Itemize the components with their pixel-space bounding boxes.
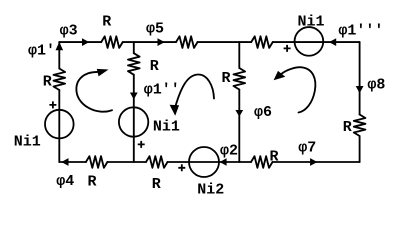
svg-text:φ7: φ7 (298, 140, 316, 157)
svg-text:R: R (152, 176, 161, 193)
svg-text:φ1'': φ1'' (144, 82, 180, 99)
svg-text:Ni1: Ni1 (14, 134, 41, 151)
svg-text:Ni1: Ni1 (153, 118, 180, 135)
svg-text:R: R (102, 13, 111, 30)
svg-text:φ1''': φ1''' (338, 23, 383, 40)
svg-text:φ1': φ1' (28, 42, 55, 59)
svg-text:φ2: φ2 (220, 142, 238, 159)
svg-text:R: R (88, 174, 97, 191)
svg-text:φ8: φ8 (367, 77, 385, 94)
svg-text:Ni2: Ni2 (197, 182, 224, 199)
svg-text:φ5: φ5 (146, 21, 164, 38)
svg-text:φ6: φ6 (254, 104, 272, 121)
svg-text:R: R (270, 149, 279, 166)
svg-text:R: R (222, 70, 231, 87)
svg-text:R: R (150, 58, 159, 75)
svg-text:R: R (343, 119, 352, 136)
svg-text:Ni1: Ni1 (298, 13, 325, 30)
svg-text:R: R (43, 74, 52, 91)
svg-text:φ4: φ4 (56, 173, 74, 190)
svg-text:φ3: φ3 (60, 22, 78, 39)
